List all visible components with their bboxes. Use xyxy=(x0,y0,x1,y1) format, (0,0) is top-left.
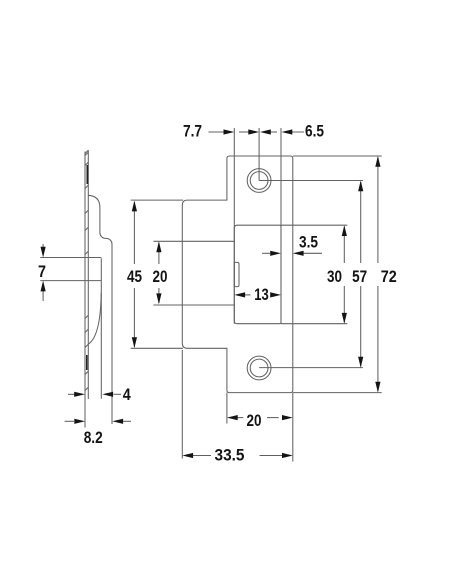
bottom hole center horizontal extension xyxy=(259,367,363,369)
svg-text:33.5: 33.5 xyxy=(215,447,245,465)
side view lip inner return curve xyxy=(88,293,101,344)
svg-text:30: 30 xyxy=(327,268,342,286)
box top edge extension xyxy=(281,224,347,226)
bottom screw hole inner xyxy=(250,359,268,377)
svg-text:7: 7 xyxy=(38,263,46,281)
side view plate left edge xyxy=(84,152,86,428)
dimension 4 xyxy=(68,386,132,404)
box bottom edge extension xyxy=(281,323,347,325)
side view tab top edge xyxy=(40,257,101,259)
top screw hole outer xyxy=(247,169,271,193)
svg-text:20: 20 xyxy=(247,412,262,430)
side view hatch ticks xyxy=(85,152,88,390)
svg-text:20: 20 xyxy=(153,268,168,286)
dimension 7 xyxy=(38,244,46,301)
bottom screw hole outer xyxy=(247,356,271,380)
top screw hole inner xyxy=(250,172,268,190)
plate top edge extension xyxy=(293,155,382,157)
dimension 45 xyxy=(127,201,142,348)
svg-text:7.7: 7.7 xyxy=(183,123,202,141)
side view plate right edge xyxy=(87,150,89,399)
front view box right fold line xyxy=(280,128,282,324)
right ext line for 20 and 33.5 xyxy=(292,393,294,462)
svg-text:3.5: 3.5 xyxy=(299,234,318,252)
svg-text:72: 72 xyxy=(381,268,397,286)
lip bottom edge extension xyxy=(131,347,183,349)
side view tab bottom edge xyxy=(40,280,101,282)
lip top edge extension xyxy=(131,199,183,201)
front view latch tab xyxy=(234,262,239,286)
top hole center horizontal extension xyxy=(259,180,363,182)
svg-text:57: 57 xyxy=(352,268,367,286)
side view bent-edge dark band upper xyxy=(86,165,88,184)
dimension 3.5 xyxy=(262,234,322,256)
top hole center vertical extension xyxy=(258,128,260,181)
side view lip outer profile xyxy=(88,195,112,424)
svg-text:8.2: 8.2 xyxy=(84,429,103,447)
side view plate top bevel xyxy=(85,150,88,153)
dimension 13 xyxy=(234,286,281,304)
side view bent-edge dark band lower xyxy=(86,355,88,370)
front view lip inner bottom line xyxy=(153,304,234,306)
dimension 7.7 xyxy=(183,123,259,141)
dimension 20 left xyxy=(153,241,168,304)
left ext line for bottom 20 xyxy=(226,393,228,424)
front view lip inner top line xyxy=(153,240,234,242)
dimension 72 xyxy=(375,156,397,393)
dimension 6.5 xyxy=(260,123,324,141)
front view plate outline with lip xyxy=(182,156,292,393)
front view latch box xyxy=(234,225,281,324)
dimension 33.5 xyxy=(182,447,292,465)
dimension 8.2 xyxy=(65,419,131,447)
svg-text:13: 13 xyxy=(254,286,269,304)
dimension 57 xyxy=(352,181,367,368)
dimension 20 bottom xyxy=(227,412,293,430)
front view box left fold line xyxy=(233,128,235,324)
svg-text:6.5: 6.5 xyxy=(305,123,324,141)
svg-text:45: 45 xyxy=(127,268,142,286)
left ext line for 33.5 xyxy=(181,350,183,459)
plate bottom edge extension xyxy=(293,392,382,394)
svg-text:4: 4 xyxy=(123,386,132,404)
dimension 30 xyxy=(327,225,347,324)
side view lip fold line xyxy=(100,258,102,399)
